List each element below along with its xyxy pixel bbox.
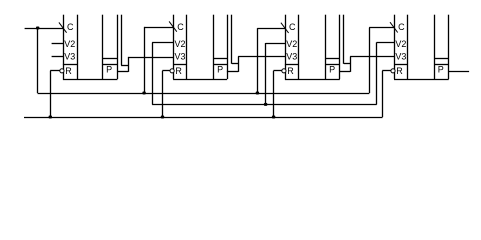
counter U2 body (vertical edges)	[173, 15, 175, 79]
node junction dot on CLK input	[36, 27, 39, 30]
wire U3 pin V2 from bus riser	[266, 43, 286, 45]
counter U4 clock dynamic-input slash at pin C	[390, 22, 398, 32]
wire stub vertical at U3 output (open top)	[343, 15, 345, 64]
svg-text:R: R	[287, 66, 294, 76]
node junction dot U3 reset on reset bus	[272, 116, 275, 119]
wire stub vertical at U1 output (open top)	[121, 15, 123, 66]
wire jog connecting stub to U3 carry riser	[344, 63, 351, 65]
counter U2 clock dynamic-input slash at pin C	[169, 21, 177, 31]
svg-text:V2: V2	[64, 39, 75, 49]
counter U1 body (vertical edges)	[63, 15, 65, 79]
counter U3 output section upper line	[325, 58, 339, 60]
svg-text:V3: V3	[64, 52, 75, 62]
svg-text:V3: V3	[286, 52, 297, 62]
counter U3 divider above P cell	[325, 64, 339, 66]
counter U2 divider above R cell	[173, 64, 187, 66]
wire U2 carry output P to riser	[227, 71, 238, 73]
wire U4 pin V3 from U3 carry riser	[350, 56, 394, 58]
counter U2 bottom edge	[173, 79, 227, 81]
node junction dot U1 reset on reset bus	[49, 116, 52, 119]
wire U2 pin C from clock bus riser	[144, 27, 173, 29]
counter U3 bottom edge	[285, 79, 340, 81]
svg-text:R: R	[396, 66, 403, 76]
wire U1 carry output P to riser	[117, 71, 128, 73]
svg-text:R: R	[175, 66, 182, 76]
wire U3 pin C from clock bus riser	[257, 28, 285, 30]
node junction dot U2 reset on reset bus	[161, 116, 164, 119]
counter U1 divider above R cell	[63, 64, 78, 66]
wire jog connecting stub to U1 carry riser	[121, 65, 128, 67]
wire V2 bus (horizontal)	[152, 104, 377, 106]
counter U1 clock dynamic-input slash at pin C	[59, 22, 67, 32]
counter U4 divider above R cell	[394, 64, 408, 66]
counter U4 bottom edge	[394, 79, 449, 81]
counter U1 bottom edge	[63, 79, 118, 81]
wire U1 pin V2 stub	[52, 43, 64, 45]
wire clock bus (horizontal)	[38, 93, 370, 95]
wire U4 carry output P (open end)	[449, 71, 470, 73]
svg-text:R: R	[65, 66, 72, 76]
counter U2 output section upper line	[213, 58, 227, 60]
node junction dot U3 V2 riser on V2 bus	[264, 103, 267, 106]
wire U3 carry output P to riser	[340, 71, 351, 73]
wire U4 pin R to reset bus	[382, 70, 391, 72]
wire reset bus R from left edge (horizontal)	[24, 117, 383, 119]
svg-text:V2: V2	[175, 39, 186, 49]
wire U1 pin R to reset bus	[50, 70, 60, 72]
svg-text:C: C	[177, 22, 184, 32]
wire U1 pin V3 stub	[52, 56, 64, 58]
counter U4 output section upper line	[434, 58, 449, 60]
wire U2 pin V2 from bus riser	[152, 42, 173, 44]
svg-text:C: C	[289, 22, 296, 32]
counter U2 inversion bubble on pin R	[170, 69, 174, 73]
wire stub vertical at U2 output (open top)	[231, 15, 233, 64]
svg-text:V2: V2	[395, 39, 406, 49]
svg-text:V3: V3	[395, 52, 406, 62]
svg-text:C: C	[398, 22, 405, 32]
counter U4 body (vertical edges)	[394, 15, 396, 79]
node junction dot U2 clock riser on clock bus	[142, 92, 145, 95]
wire jog connecting stub to U2 carry riser	[232, 63, 239, 65]
counter U1 inversion bubble on pin R	[60, 69, 64, 73]
wire U2 pin V3 from U1 carry riser	[128, 57, 173, 59]
counter U4 divider above P cell	[434, 64, 449, 66]
wire U3 carry riser up to U4 V3 level	[350, 57, 352, 72]
wire U3 pin V3 from U2 carry riser	[238, 56, 285, 58]
wire U3 pin R to reset bus	[274, 70, 282, 72]
wire U4 pin V2 from bus riser	[377, 42, 395, 44]
wire U1 carry riser up to U2 V3 level	[128, 57, 130, 72]
wire U2 pin R to reset bus	[162, 70, 170, 72]
svg-text:P: P	[217, 65, 223, 75]
counter U3 inversion bubble on pin R	[282, 69, 286, 73]
counter U3 body (vertical edges)	[285, 15, 287, 79]
counter U1 output section upper line	[102, 58, 117, 60]
wire U4 pin C from clock bus riser	[369, 27, 394, 29]
wire CLK branch down to clock bus	[37, 28, 39, 93]
counter U3 divider above R cell	[285, 64, 299, 66]
counter U4 inversion bubble on pin R	[391, 69, 395, 73]
node junction dot U3 clock riser on clock bus	[256, 92, 259, 95]
svg-text:P: P	[106, 65, 112, 75]
counter U1 divider above P cell	[102, 64, 117, 66]
svg-text:P: P	[438, 65, 444, 75]
svg-text:P: P	[329, 65, 335, 75]
wire U2 carry riser up to U3 V3 level	[238, 57, 240, 72]
svg-text:V3: V3	[175, 52, 186, 62]
counter U3 clock dynamic-input slash at pin C	[281, 23, 289, 33]
counter U2 divider above P cell	[213, 64, 227, 66]
wire clock input CLK from left edge	[25, 28, 64, 30]
svg-text:C: C	[67, 22, 74, 32]
svg-text:V2: V2	[286, 39, 297, 49]
